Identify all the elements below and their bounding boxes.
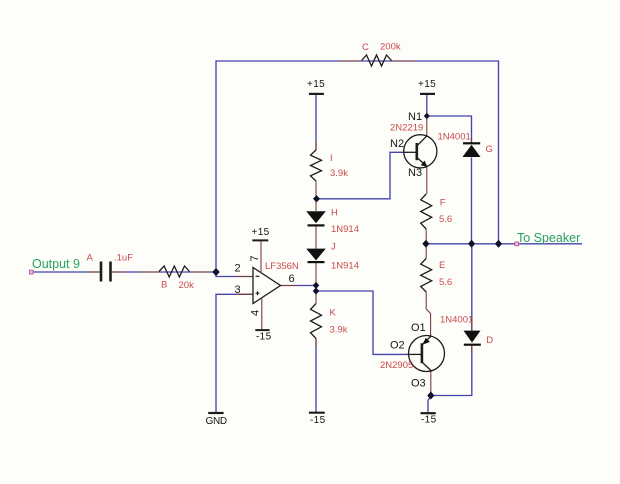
node junction speaker row diode column (468, 240, 475, 248)
svg-text:1N4001: 1N4001 (440, 315, 473, 326)
svg-text:N3: N3 (408, 167, 422, 179)
op-amp U1 LF356N triangle (253, 268, 281, 304)
wire pin stub overlay diode D bottom (471, 346, 473, 352)
svg-text:3.9k: 3.9k (330, 325, 348, 336)
svg-text:3.9k: 3.9k (330, 168, 348, 179)
diode J body (306, 249, 326, 264)
svg-text:I: I (330, 153, 333, 164)
op-amp pin 4 stub (261, 299, 263, 330)
wire O3 node right and up to diode D (431, 346, 472, 396)
svg-text:1N914: 1N914 (331, 224, 359, 235)
wire node to NPN base (N2) (317, 152, 404, 199)
transistor Q1 2N2219 circle (404, 135, 437, 168)
op-amp +15 supply bar (252, 239, 268, 241)
svg-text:O3: O3 (411, 378, 426, 390)
+15 supply bar NPN column (420, 93, 435, 95)
wire pin stub overlay resistor K bottom (315, 339, 317, 348)
svg-text:-15: -15 (310, 415, 326, 426)
svg-text:O2: O2 (390, 340, 405, 352)
wire resistor I to diode H (node) (315, 181, 317, 211)
transistor Q2 emitter lead (423, 336, 431, 344)
diode D body (pointing down) (464, 331, 481, 346)
wire pin stub overlay diode G top (471, 138, 473, 143)
capacitor A plates (100, 262, 103, 282)
transistor Q1 base lead (404, 151, 417, 153)
resistor F zigzag (421, 194, 432, 229)
wire speaker node down to resistor E (425, 244, 427, 259)
wire op-amp pin 3 to GND column (216, 294, 253, 412)
wire pin stub overlay diode D top (471, 317, 473, 331)
transistor Q1 emitter lead (418, 158, 427, 167)
wire NPN emitter to resistor F (426, 166, 428, 194)
svg-text:7: 7 (249, 255, 261, 261)
svg-text:+15: +15 (307, 79, 325, 90)
transistor Q2 base bar (421, 343, 424, 363)
svg-text:Output 9: Output 9 (32, 257, 80, 271)
svg-text:200k: 200k (380, 42, 401, 53)
svg-text:To Speaker: To Speaker (517, 231, 580, 245)
port marker Output 9 (29, 270, 33, 274)
wire op-amp output to node (281, 285, 317, 287)
wire N1 node right and down to diode G (427, 116, 472, 143)
-15 supply bar mid column (309, 412, 325, 414)
wire O3 node to -15 supply (428, 396, 431, 413)
op-amp pin 7 stub (260, 241, 262, 273)
wire input line from Output9 port to junction (31, 271, 100, 273)
wire resistor K down to -15 (315, 339, 317, 413)
GND supply bar (208, 412, 223, 414)
svg-text:D: D (486, 335, 493, 346)
svg-text:J: J (331, 242, 336, 253)
transistor Q1 base bar (415, 143, 418, 160)
wire pin stub overlay mid column below +15 (315, 141, 317, 150)
svg-text:N2: N2 (390, 138, 404, 150)
svg-text:2: 2 (235, 263, 241, 275)
diode H body (306, 211, 326, 226)
diode G body (pointing up) (463, 142, 481, 157)
transistor Q2 collector lead (423, 363, 432, 371)
svg-text:N1: N1 (408, 111, 422, 123)
+15 supply bar mid column (309, 93, 324, 95)
wire diode J to output node (315, 263, 317, 292)
svg-text:E: E (439, 260, 445, 271)
transistor Q1 emitter arrow (421, 161, 428, 167)
transistor Q2 base lead (409, 353, 422, 355)
wire feedback loop: junction up, across top, down right side (216, 61, 499, 272)
svg-text:5.6: 5.6 (439, 214, 452, 225)
op-amp -15 supply bar (255, 329, 269, 331)
svg-text:2N2219: 2N2219 (390, 122, 423, 133)
svg-text:3: 3 (235, 284, 241, 296)
wire speaker row To Speaker (423, 243, 582, 245)
svg-text:2N2905: 2N2905 (380, 360, 413, 371)
svg-text:B: B (161, 280, 167, 291)
node junction O3 (427, 392, 434, 400)
resistor K zigzag (311, 304, 322, 339)
wire speaker node down to diode D (471, 244, 473, 331)
node junction op-amp output lower (313, 287, 320, 294)
node junction N1 (424, 113, 430, 120)
wire pin stub overlays op-amp inputs (236, 276, 253, 278)
transistor Q2 2N2905 circle (409, 336, 445, 372)
wire N1 node into NPN collector (426, 116, 428, 137)
wire output node to resistor K (315, 291, 317, 304)
svg-text:GND: GND (206, 416, 227, 427)
svg-text:F: F (440, 198, 446, 209)
svg-text:1N4001: 1N4001 (438, 131, 471, 142)
wire pin stub overlays resistor C top run (339, 60, 362, 62)
wire resistor F to speaker node (425, 229, 427, 244)
node junction speaker row feedback (495, 240, 502, 248)
node junction speaker row left (422, 240, 429, 248)
svg-text:H: H (331, 207, 338, 218)
svg-text:+15: +15 (252, 227, 270, 238)
svg-text:1N914: 1N914 (331, 260, 359, 271)
-15 supply bar PNP column (421, 412, 436, 414)
svg-text:4: 4 (250, 310, 262, 316)
node junction at input (212, 268, 220, 276)
resistor C zigzag (362, 55, 392, 66)
svg-text:A: A (87, 253, 94, 264)
svg-text:K: K (330, 308, 337, 319)
svg-text:-15: -15 (256, 332, 272, 343)
wire pin stub colour overlays input line (88, 271, 100, 273)
wire PNP collector to O3 node (430, 370, 432, 396)
wire diode H to diode J (315, 227, 317, 249)
wire pin stub overlay op-amp output (281, 285, 299, 287)
svg-text:.1uF: .1uF (114, 253, 133, 264)
port marker To Speaker (515, 242, 519, 246)
resistor I zigzag (311, 150, 322, 181)
svg-text:-15: -15 (421, 414, 437, 425)
transistor Q1 collector lead (418, 136, 427, 146)
svg-text:6: 6 (289, 273, 295, 285)
wire output node to PNP base (O2) (316, 291, 409, 354)
wire resistor E to PNP emitter (jog) (426, 292, 430, 337)
svg-text:5.6: 5.6 (439, 277, 452, 288)
node junction resistor I / diode H / N2 tap (313, 195, 320, 202)
svg-text:O1: O1 (411, 322, 426, 334)
svg-text:G: G (486, 144, 493, 155)
op-amp minus marker (256, 275, 260, 277)
resistor E zigzag (421, 259, 432, 293)
svg-text:LF356N: LF356N (265, 261, 299, 272)
resistor B zigzag (159, 266, 190, 277)
wire diode G down to speaker node (471, 158, 473, 244)
svg-text:20k: 20k (179, 280, 195, 291)
svg-text:+15: +15 (418, 79, 436, 90)
node junction op-amp output upper (313, 282, 320, 289)
op-amp plus marker (256, 291, 260, 295)
transistor Q2 emitter arrow (points to bar) (422, 338, 430, 345)
wire junction to op-amp pin 2 (216, 272, 253, 277)
wire mid column +15 down to resistor I (315, 95, 317, 150)
wire NPN +15 down to N1 node (426, 95, 428, 116)
svg-text:C: C (362, 42, 369, 53)
